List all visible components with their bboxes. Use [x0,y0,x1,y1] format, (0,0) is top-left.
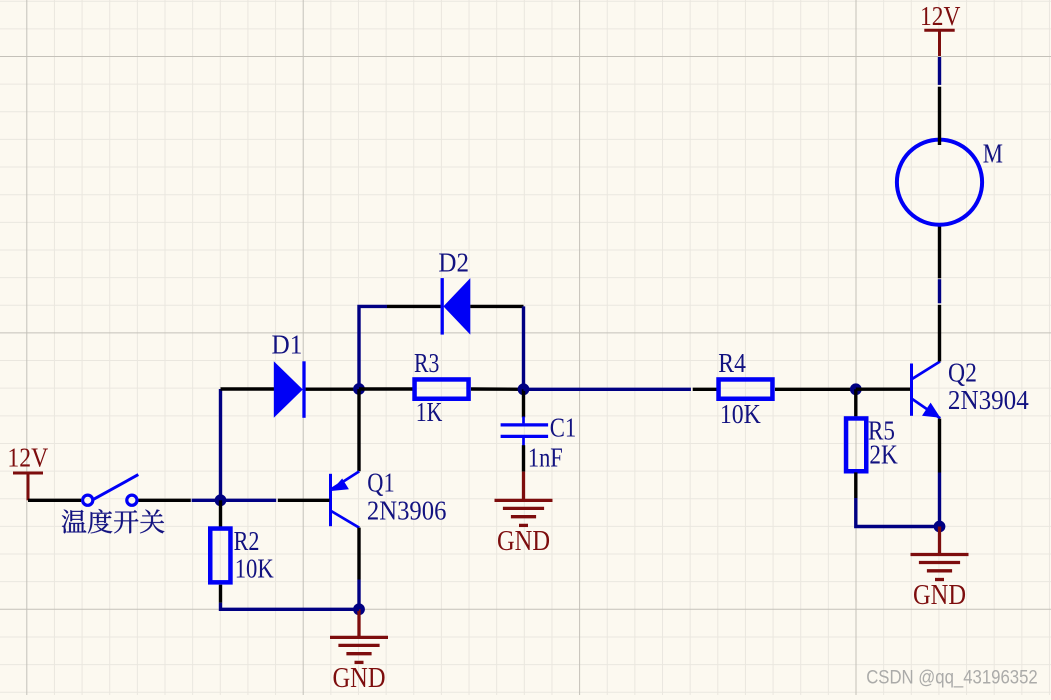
wire [938,419,941,473]
wire [387,305,441,308]
wire [219,500,222,527]
svg-text:R4: R4 [718,348,746,378]
wire [938,473,941,527]
svg-text:GND: GND [913,580,966,611]
junction B [353,383,365,395]
wire [219,389,222,500]
wire [471,387,524,391]
power 12V top [938,30,941,56]
wire [522,445,525,471]
wire [938,224,941,278]
wire [357,389,360,471]
junction E [850,383,862,395]
svg-text:M: M [983,138,1003,168]
junction F [934,521,946,533]
wire [221,387,275,390]
svg-text:10K: 10K [235,554,274,584]
wire [221,603,360,610]
wire [470,305,523,308]
wire [219,585,222,603]
svg-text:D2: D2 [438,247,469,277]
svg-text:2N3906: 2N3906 [367,496,447,526]
svg-text:R2: R2 [234,526,260,556]
wire [938,305,941,362]
label 温度开关 [62,510,87,534]
resistor R4 [719,379,773,398]
junction C [518,383,530,395]
transistor Q1 [329,474,332,526]
ground GND (C1) [522,472,525,501]
svg-text:10K: 10K [720,399,761,429]
svg-text:GND: GND [497,526,550,557]
wire [306,388,359,391]
wire [28,499,81,502]
wire [693,388,717,391]
resistor R2 [210,529,230,583]
wire [522,306,525,389]
wire [522,389,525,417]
svg-text:12V: 12V [7,443,48,473]
wire [854,472,857,498]
wire [192,499,277,502]
svg-text:Q1: Q1 [367,467,394,497]
wire [938,279,941,303]
wire [938,57,941,85]
svg-text:1nF: 1nF [528,443,563,473]
wire [854,389,857,416]
svg-text:2K: 2K [869,440,898,470]
wire [856,498,940,527]
svg-text:1K: 1K [416,397,443,427]
svg-text:D1: D1 [272,330,303,360]
wire [357,580,360,610]
wire [856,388,910,391]
wire [139,499,191,502]
svg-text:Q2: Q2 [948,357,977,387]
svg-text:C1: C1 [550,412,577,442]
wire [357,528,360,580]
motor M [897,140,982,225]
diode D1 [274,361,303,418]
capacitor C1 [522,417,525,424]
wire [938,87,941,145]
svg-text:GND: GND [333,663,386,694]
wire [775,388,856,391]
junction D [353,603,365,615]
wire [359,387,413,390]
wire [278,499,330,502]
switch temperature [83,495,93,505]
wire [359,306,387,389]
svg-text:12V: 12V [920,1,961,31]
ground GND (Q1) [357,609,360,637]
junction A [215,494,227,506]
wire [524,388,691,391]
svg-text:2N3904: 2N3904 [948,385,1029,415]
svg-text:R3: R3 [414,348,439,378]
diode D2 [441,278,444,335]
resistor R5 [846,418,866,471]
ground GND (Q2) [938,527,941,555]
resistor R3 [415,379,469,398]
transistor Q2 [910,364,913,416]
svg-text:CSDN @qq_43196352: CSDN @qq_43196352 [866,668,1037,689]
